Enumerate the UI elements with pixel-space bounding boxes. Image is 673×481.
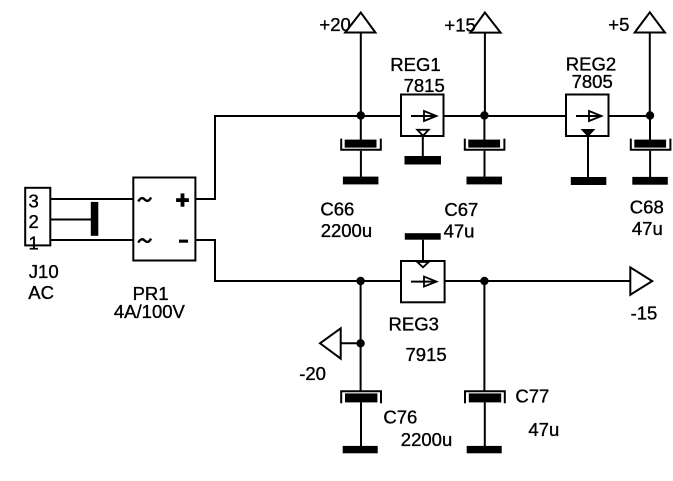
svg-text:7915: 7915 <box>406 344 447 365</box>
ground C68 <box>632 177 668 185</box>
label REG2 7805 <box>566 53 616 92</box>
wire C68 to ground <box>649 151 651 177</box>
node -20 stub junction <box>356 339 364 347</box>
wire bottom rail left segment <box>214 280 401 282</box>
regulator REG2 7805 <box>566 95 609 137</box>
svg-text:AC: AC <box>28 282 54 303</box>
wire rail to C66 <box>360 116 362 141</box>
terminator bar on pin2 <box>91 202 99 236</box>
wire riser up to top rail <box>214 115 216 199</box>
node bottom rail / C76 junction <box>356 277 364 285</box>
label C77 47u <box>515 386 559 441</box>
ground C77 <box>467 446 502 453</box>
wire C67 to ground <box>484 151 486 177</box>
regulator REG1 7815 <box>401 95 444 137</box>
wire REG1 to ground <box>422 136 424 156</box>
label J10 AC <box>28 261 58 303</box>
node +20 rail junction <box>357 111 365 119</box>
svg-text:C77: C77 <box>515 386 549 407</box>
ground REG3 (top bar) <box>405 233 441 240</box>
wire -20 stub <box>341 342 361 344</box>
ground REG2 <box>571 177 607 185</box>
svg-text:C66: C66 <box>320 198 354 219</box>
wire C77 to ground <box>484 402 486 446</box>
node bottom rail / C77 junction <box>480 277 488 285</box>
wire rail to C67 <box>483 116 485 141</box>
label C67 47u <box>444 199 479 242</box>
label C76 2200u <box>383 407 452 450</box>
regulator REG3 7915 <box>401 261 445 302</box>
svg-text:2200u: 2200u <box>401 429 452 450</box>
wire REG2 to ground <box>587 136 589 177</box>
wire C76 to ground <box>360 402 362 446</box>
wire REG3 ground <box>422 240 424 261</box>
power arrow -20 <box>299 328 341 384</box>
label REG1 7815 <box>390 54 444 96</box>
ground REG1 <box>405 156 442 165</box>
connector J10 <box>25 188 50 246</box>
ground C76 <box>343 446 378 453</box>
ground C66 <box>343 177 379 185</box>
wire junction down to C77 <box>483 281 485 391</box>
svg-text:+5: +5 <box>608 14 629 35</box>
wire C66 to ground <box>360 151 362 177</box>
svg-text:2: 2 <box>29 211 39 232</box>
svg-text:47u: 47u <box>444 221 475 242</box>
svg-text:+20: +20 <box>319 14 350 35</box>
svg-text:47u: 47u <box>632 218 663 239</box>
wire pin3 to PR1 <box>50 198 133 200</box>
svg-text:2200u: 2200u <box>321 220 372 241</box>
label C68 47u <box>630 197 664 240</box>
wire +20 to rail <box>360 33 362 117</box>
wire pin1 to PR1 <box>50 239 133 241</box>
svg-text:7805: 7805 <box>572 71 613 92</box>
wire +5 to rail <box>649 33 651 117</box>
svg-text:REG3: REG3 <box>389 313 439 334</box>
svg-text:3: 3 <box>29 191 39 212</box>
wire riser down to bottom rail <box>214 240 216 282</box>
svg-text:47u: 47u <box>528 419 559 440</box>
ground C67 <box>467 177 503 185</box>
bridge rectifier PR1 <box>133 178 195 261</box>
wire top rail <box>214 115 650 117</box>
capacitor C66 <box>341 139 381 150</box>
wire PR1 + to riser <box>195 198 216 200</box>
capacitor C77 <box>465 391 505 403</box>
wire +15 to rail <box>484 33 486 116</box>
power arrow +20 <box>319 13 375 35</box>
svg-text:J10: J10 <box>29 261 59 282</box>
power arrow -15 <box>630 267 657 323</box>
svg-text:-20: -20 <box>299 363 326 384</box>
capacitor C76 <box>341 391 381 403</box>
svg-text:7815: 7815 <box>404 75 445 96</box>
node +5 rail junction <box>646 111 654 119</box>
svg-text:1: 1 <box>29 233 39 254</box>
capacitor C67 <box>465 139 505 150</box>
svg-text:REG1: REG1 <box>390 54 440 75</box>
wire pin2 stub <box>50 219 91 221</box>
wire PR1 - to riser <box>195 239 216 241</box>
wire bottom rail right segment <box>445 280 631 282</box>
wire rail to C68 <box>649 116 651 141</box>
node +15 rail junction <box>480 111 488 119</box>
power arrow +15 <box>444 13 500 36</box>
svg-text:4A/100V: 4A/100V <box>114 301 186 322</box>
power arrow +5 <box>608 12 665 35</box>
svg-text:C67: C67 <box>444 199 478 220</box>
wire junction down to C76 <box>360 281 362 391</box>
capacitor C68 <box>631 139 671 150</box>
label REG3 7915 <box>389 313 447 365</box>
label C66 2200u <box>320 198 372 241</box>
svg-text:+15: +15 <box>444 14 475 35</box>
svg-text:C76: C76 <box>383 407 417 428</box>
label PR1 4A/100V <box>114 283 186 322</box>
svg-text:-15: -15 <box>631 303 658 324</box>
svg-text:C68: C68 <box>630 197 664 218</box>
